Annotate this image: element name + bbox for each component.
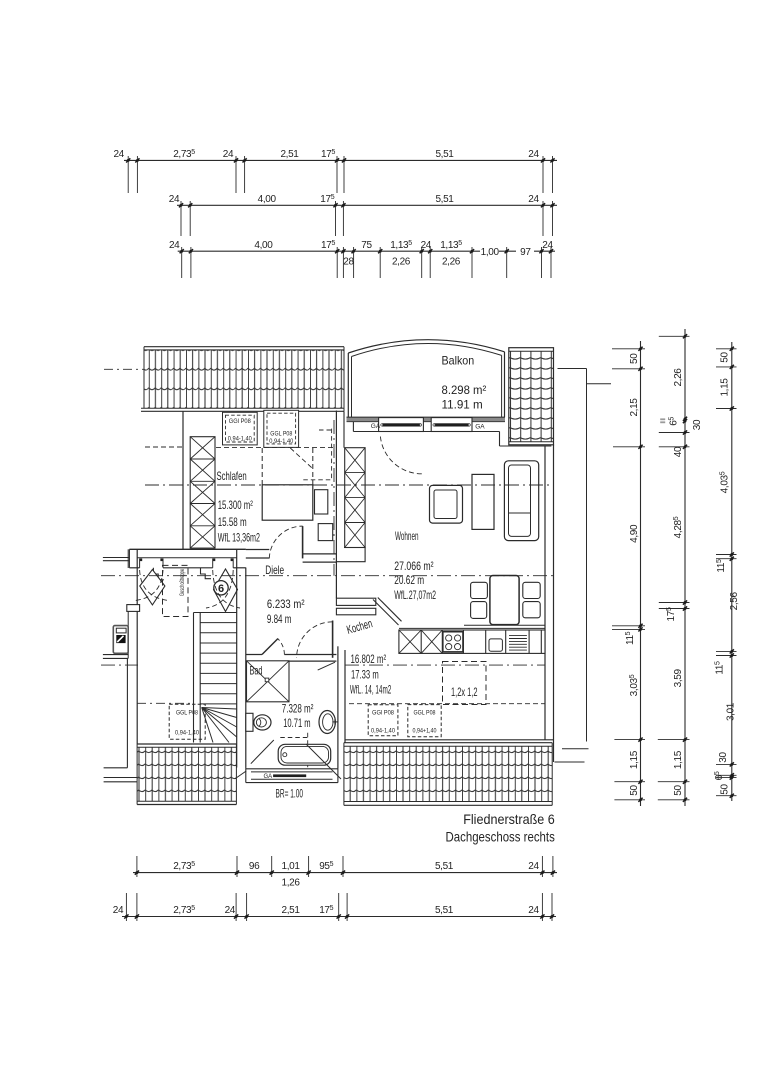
svg-text:28: 28: [343, 257, 354, 268]
stairwell-bad wall: [236, 549, 238, 767]
svg-text:2,51: 2,51: [282, 905, 301, 916]
kitchen counter backsplash: [464, 624, 545, 626]
top row1 extension lines: [128, 156, 552, 193]
chain3 extension lines: [716, 349, 737, 796]
axis vertical x=334: [333, 420, 335, 576]
svg-text:2,735: 2,735: [173, 905, 195, 916]
svg-text:Geschoßtreppe: Geschoßtreppe: [180, 569, 186, 596]
svg-text:50: 50: [629, 353, 640, 364]
svg-text:BR= 1.00: BR= 1.00: [276, 787, 304, 801]
nightstand 2: [318, 524, 333, 541]
kitchen wall stub B: [336, 608, 375, 615]
GGL roof window box stairs: [169, 704, 205, 739]
top row2 tick marks: [179, 203, 555, 207]
dimension tick dots: [125, 159, 733, 918]
svg-text:24: 24: [225, 905, 236, 916]
sofa: [504, 461, 538, 541]
bed solid lower part: [262, 485, 313, 520]
bed dashed upper part: [262, 448, 313, 485]
right dimension chain 2: [684, 329, 686, 806]
top row2 extension lines: [181, 201, 553, 236]
svg-text:4,90: 4,90: [629, 524, 640, 543]
svg-text:30: 30: [692, 419, 703, 430]
bottom dimension row B1 line: [133, 872, 557, 874]
svg-text:4,035: 4,035: [720, 471, 731, 493]
svg-text:1,15: 1,15: [673, 750, 684, 769]
svg-text:2,56: 2,56: [729, 591, 740, 610]
dining chairs: [471, 582, 541, 618]
kitchen wall stub A: [336, 598, 375, 605]
bathtub: [278, 744, 331, 765]
armchair: [430, 485, 463, 523]
hall west wall: [136, 549, 138, 744]
svg-text:175: 175: [319, 905, 333, 916]
X-column Wohnen: [345, 448, 365, 548]
roof hatch bottom-left: [137, 744, 236, 805]
svg-text:1,135: 1,135: [440, 240, 462, 251]
kitchen door leaf: [332, 621, 334, 658]
svg-text:2,26: 2,26: [392, 257, 411, 268]
svg-text:15.300 m²: 15.300 m²: [218, 498, 253, 512]
svg-text:24: 24: [169, 194, 180, 205]
svg-text:0,94+1,40: 0,94+1,40: [413, 729, 438, 735]
door frame step right: [201, 568, 212, 579]
svg-text:10.71 m: 10.71 m: [283, 716, 310, 730]
Bad north wall left: [246, 655, 337, 662]
svg-text:65: 65: [714, 771, 725, 780]
right dimension chain 3: [731, 342, 733, 801]
svg-text:955: 955: [319, 861, 333, 872]
svg-text:5,51: 5,51: [435, 861, 454, 872]
apartment door right leaf: [214, 569, 238, 612]
svg-text:1,2x 1,2: 1,2x 1,2: [451, 685, 478, 699]
shower: [247, 661, 290, 702]
WC: [246, 713, 271, 731]
svg-text:115: 115: [716, 559, 727, 573]
balcony: [348, 340, 504, 418]
GGL roof window box 1 Schlafen: [223, 412, 258, 445]
svg-text:17.33 m: 17.33 m: [351, 668, 379, 682]
top dimension row 1 line: [124, 159, 557, 161]
svg-text:175: 175: [321, 240, 335, 251]
balcony floor band: [347, 418, 506, 421]
entrance door left swing 2: [136, 570, 164, 601]
svg-text:175: 175: [320, 194, 334, 205]
chain2 labels: [666, 368, 703, 796]
slope diagonal Bad lower-left: [251, 740, 274, 764]
svg-text:115: 115: [625, 631, 636, 645]
left wing top wall: [103, 557, 129, 559]
main axis horizontal (y=575.7): [101, 575, 556, 577]
svg-text:4,00: 4,00: [258, 194, 277, 205]
Schlafen south wall left part: [183, 550, 269, 559]
axis north wall left stub: [104, 368, 144, 370]
chain2 equals squares: [660, 418, 665, 420]
Schlafen south wall right part: [303, 554, 337, 562]
svg-text:GA: GA: [371, 423, 381, 430]
svg-text:2,26: 2,26: [673, 368, 684, 387]
svg-text:4,00: 4,00: [254, 240, 273, 251]
svg-text:WfL.27,07m2: WfL.27,07m2: [394, 588, 436, 602]
svg-text:24: 24: [542, 240, 553, 251]
svg-text:Kochen: Kochen: [345, 616, 374, 637]
svg-text:24: 24: [113, 905, 124, 916]
top row3 tick marks: [180, 249, 554, 253]
left wing bottom wall: [103, 654, 128, 656]
apartment door swing 2: [213, 570, 240, 608]
balcony door swing dashed: [380, 437, 421, 474]
entrance door left leaf: [140, 570, 165, 605]
svg-text:3,035: 3,035: [629, 674, 640, 696]
washbasin: [319, 711, 338, 734]
top dimension row 3 line: [178, 250, 480, 252]
svg-text:50: 50: [720, 352, 731, 363]
svg-text:6.233 m²: 6.233 m²: [267, 597, 305, 611]
svg-text:Balkon: Balkon: [442, 354, 475, 368]
kitchen south wall: [345, 739, 554, 741]
entrance wall band: [129, 549, 245, 568]
svg-text:75: 75: [361, 240, 372, 251]
chain1 labels: [625, 353, 640, 796]
window-door GA 1: [379, 418, 424, 432]
svg-text:0,94-1,40: 0,94-1,40: [269, 439, 294, 445]
GGL roof window box kitchen A: [368, 705, 398, 736]
svg-text:30: 30: [718, 752, 729, 763]
svg-text:27.066 m²: 27.066 m²: [394, 559, 433, 573]
chain2 extension lines: [658, 336, 690, 800]
dashed diagonal Schlafen: [290, 448, 312, 469]
chain1 extension lines: [612, 349, 645, 800]
svg-text:GA: GA: [264, 774, 273, 780]
svg-text:WfL. 14, 14m2: WfL. 14, 14m2: [350, 683, 392, 697]
svg-text:3,01: 3,01: [726, 702, 737, 721]
stairs treads: [194, 613, 237, 704]
wall Diele-Wohnen: [335, 411, 337, 599]
svg-text:24: 24: [421, 240, 432, 251]
svg-text:GGl P08: GGl P08: [229, 419, 252, 425]
svg-text:96: 96: [249, 861, 260, 872]
wall band below X-column: [336, 548, 365, 562]
skylight 1,2x1,2 dashed: [443, 662, 487, 705]
slope diagonal at bottom-left hatch corner: [235, 771, 246, 779]
svg-text:24: 24: [223, 149, 234, 160]
axis kitchen segment (y=665): [345, 664, 545, 666]
svg-text:40: 40: [673, 446, 684, 457]
Bad door leaf: [262, 639, 278, 655]
kitchen diagonal wall: [373, 600, 399, 626]
sink: [489, 639, 502, 651]
kniestock dashed line in Schlafen: [216, 446, 336, 448]
right dimension chain 1: [640, 341, 642, 806]
svg-text:15.58 m: 15.58 m: [218, 515, 247, 529]
svg-text:5,51: 5,51: [435, 905, 454, 916]
dashed niche right of bed: [303, 429, 331, 480]
chain2 ticks: [683, 334, 687, 802]
svg-text:2,51: 2,51: [280, 149, 299, 160]
svg-text:GGL P08: GGL P08: [414, 711, 437, 717]
svg-text:1,26: 1,26: [282, 878, 301, 889]
apartment door swing: [206, 570, 233, 608]
svg-text:0,94-1,40: 0,94-1,40: [228, 437, 253, 443]
wardrobe Schlafen: [190, 437, 215, 548]
svg-text:7.328 m²: 7.328 m²: [282, 702, 314, 716]
coffee table: [472, 474, 494, 529]
svg-text:4,285: 4,285: [673, 516, 684, 538]
svg-text:GA: GA: [475, 424, 485, 431]
svg-text:2,735: 2,735: [173, 149, 195, 160]
svg-text:115: 115: [715, 661, 726, 675]
dining table: [490, 576, 519, 625]
chain3 labels: [714, 352, 740, 795]
top row3 extension lines: [182, 247, 551, 278]
door frame step left: [153, 568, 164, 580]
svg-text:1,15: 1,15: [720, 378, 731, 397]
bottom dimension row B2 line: [122, 916, 556, 918]
slope diagonal Bad across tub: [306, 744, 341, 779]
svg-text:175: 175: [321, 149, 335, 160]
roof hatch bottom-right: [344, 743, 552, 806]
svg-text:24: 24: [528, 905, 539, 916]
dishwasher lines: [509, 636, 527, 651]
chain1 ticks: [638, 347, 642, 802]
svg-text:GGL P08: GGL P08: [176, 711, 199, 717]
bottom B1 tick marks: [135, 871, 555, 875]
svg-text:8.298 m²: 8.298 m²: [442, 383, 487, 397]
wohnen east wall: [544, 446, 546, 740]
chain3 ticks: [730, 347, 734, 798]
west wall Schlafen: [182, 411, 184, 549]
svg-text:1,135: 1,135: [390, 240, 412, 251]
svg-text:Diele: Diele: [265, 563, 284, 577]
kitchen door swing arc: [297, 622, 333, 658]
svg-text:5,51: 5,51: [435, 194, 454, 205]
svg-text:Bad: Bad: [250, 664, 263, 678]
svg-text:11.91 m: 11.91 m: [442, 398, 483, 412]
left wing lower walls: [126, 658, 128, 767]
svg-text:175: 175: [666, 607, 677, 621]
top dimension row 2 line: [177, 204, 557, 206]
left wing inner wall: [127, 549, 129, 568]
slope diagonal top-right kitchen corner: [318, 662, 335, 670]
svg-text:24: 24: [528, 861, 539, 872]
neighbor context outline right: [555, 369, 612, 763]
svg-text:0,94-1,40: 0,94-1,40: [175, 731, 200, 737]
svg-text:16.802 m²: 16.802 m²: [351, 652, 387, 666]
svg-text:65: 65: [669, 417, 680, 426]
svg-text:1,01: 1,01: [282, 861, 301, 872]
window-door GA 2: [431, 418, 472, 432]
GGL roof window box kitchen B: [408, 705, 441, 737]
balcony door wall: interior line: [353, 431, 499, 433]
stove: [443, 632, 463, 652]
svg-text:GGl P08: GGl P08: [372, 711, 395, 717]
dashed kniestock Bad: [280, 733, 307, 770]
wall return stub: [127, 605, 140, 612]
svg-text:Fliednerstraße 6: Fliednerstraße 6: [463, 811, 555, 827]
GGL roof window box 2 Schlafen: [264, 410, 299, 447]
axis bath (y=703.3): [137, 702, 194, 704]
svg-text:1,00: 1,00: [481, 247, 500, 258]
Schlafen door swing arc: [269, 526, 302, 558]
svg-text:2,26: 2,26: [442, 257, 461, 268]
dormer window bar: [273, 774, 306, 777]
svg-text:Schlafen: Schlafen: [217, 469, 247, 483]
wohnen top-right wall step: [499, 432, 501, 447]
svg-text:2,735: 2,735: [173, 861, 195, 872]
kitchen counter: [399, 630, 545, 653]
nightstand 1: [315, 490, 328, 514]
stairs winders: [202, 708, 237, 743]
svg-text:24: 24: [528, 194, 539, 205]
svg-text:0,94-1,40: 0,94-1,40: [371, 729, 396, 735]
svg-text:GGL P08: GGL P08: [270, 432, 293, 438]
svg-text:50: 50: [720, 784, 731, 795]
svg-text:3,59: 3,59: [673, 668, 684, 687]
kniestock dashed line west: [145, 446, 183, 448]
bottom B1 extension lines: [137, 856, 553, 877]
bottom B2 tick marks: [124, 914, 554, 918]
svg-text:24: 24: [113, 149, 124, 160]
dormer south wall: [246, 768, 338, 783]
svg-text:6: 6: [218, 583, 224, 595]
svg-text:24: 24: [169, 240, 180, 251]
stairs stringer: [193, 613, 195, 743]
Bad-Kueche wall: [337, 646, 339, 769]
top row1 tick marks: [126, 158, 555, 162]
svg-text:Wohnen: Wohnen: [395, 529, 419, 543]
svg-text:2,15: 2,15: [629, 398, 640, 417]
apartment number circle: [214, 581, 228, 595]
svg-text:WfL 13,36m2: WfL 13,36m2: [218, 531, 260, 545]
svg-text:Dachgeschoss rechts: Dachgeschoss rechts: [446, 829, 555, 845]
roof hatch top-left: [141, 347, 344, 412]
Schlafen door leaf: [302, 526, 304, 558]
entrance door left swing: [140, 570, 168, 601]
svg-text:50: 50: [629, 785, 640, 796]
axis schlafen/wohnen (y=485): [145, 484, 553, 486]
svg-text:9.84 m: 9.84 m: [267, 612, 292, 626]
axis kitchen left wing segment (y=665): [101, 664, 138, 666]
Geschosstreppe dashed box: [163, 565, 189, 616]
svg-text:50: 50: [673, 785, 684, 796]
roof hatch top-right: [509, 348, 554, 445]
svg-text:24: 24: [528, 149, 539, 160]
bottom B2 extension lines: [126, 893, 552, 921]
svg-text:1,15: 1,15: [629, 750, 640, 769]
Bad door swing: [278, 639, 285, 655]
kniestock dashed south kitchen: [349, 703, 545, 705]
svg-text:5,51: 5,51: [435, 149, 454, 160]
svg-text:97: 97: [520, 247, 531, 258]
elevator icon: [113, 626, 128, 654]
